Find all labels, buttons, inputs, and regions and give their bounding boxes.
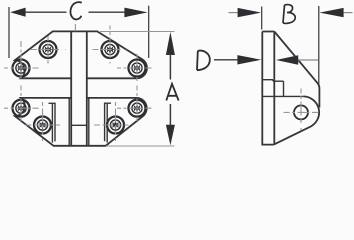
centerlines bottom-right inner hole bbox=[94, 102, 133, 147]
bottom hinge plate outline bbox=[15, 98, 147, 146]
screw hole bottom-left corner bbox=[13, 100, 30, 117]
barrel centerline tick bbox=[74, 24, 76, 31]
screw hole bottom-right inner bbox=[107, 117, 124, 134]
side view leaf bar bbox=[262, 32, 274, 145]
hinge barrel bbox=[71, 31, 87, 145]
extension line A bottom bbox=[106, 145, 175, 147]
label B bbox=[283, 5, 295, 24]
centerlines bottom-right corner hole bbox=[117, 86, 156, 122]
knuckle slot lines (bottom leaf) bbox=[69, 98, 89, 146]
screw hole bottom-right corner bbox=[129, 100, 146, 117]
dimension line C with arrows bbox=[10, 8, 147, 18]
pivot hole (side view) bbox=[294, 105, 308, 119]
knuckle step left bbox=[49, 103, 56, 142]
screw hole top-left inner bbox=[40, 41, 57, 58]
screw hole top-right inner bbox=[102, 41, 119, 58]
extension line B right bbox=[318, 6, 320, 84]
centerlines bottom-left corner hole bbox=[4, 86, 43, 122]
screw hole top-left corner bbox=[13, 60, 30, 77]
label C bbox=[70, 2, 81, 19]
extension line A top bbox=[100, 31, 175, 33]
centerlines top-left corner hole bbox=[4, 41, 43, 82]
label A bbox=[166, 84, 178, 101]
centerlines top-left inner hole bbox=[31, 36, 66, 64]
extension line C right bbox=[148, 6, 150, 58]
side view internal step lines bbox=[262, 80, 303, 97]
screw hole top-right corner bbox=[129, 60, 146, 77]
top hinge plate outline bbox=[15, 31, 147, 78]
side view knuckle outer curve and gusset bbox=[274, 96, 319, 144]
extension line B left bbox=[261, 7, 263, 30]
knuckle step right bbox=[105, 103, 111, 142]
extension line C left bbox=[8, 7, 10, 58]
dimension line D with outside arrows bbox=[214, 55, 318, 65]
pivot centerlines bbox=[284, 89, 324, 133]
dimension line B with outside arrows bbox=[229, 8, 353, 17]
centerlines top-right corner hole bbox=[117, 54, 156, 82]
screw hole bottom-left inner bbox=[34, 117, 51, 134]
centerlines bottom-left inner hole bbox=[26, 102, 65, 147]
centerlines top-right inner hole bbox=[93, 26, 128, 64]
dimension line A with arrows bbox=[166, 32, 175, 145]
label D bbox=[197, 51, 210, 71]
side view flange diagonal bbox=[274, 32, 319, 108]
